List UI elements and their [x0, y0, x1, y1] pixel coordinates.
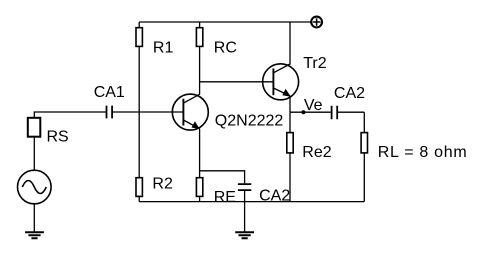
svg-text:CA1: CA1: [94, 84, 125, 101]
svg-text:RS: RS: [47, 129, 69, 146]
svg-text:Re2: Re2: [302, 144, 331, 161]
svg-text:Ve: Ve: [304, 97, 323, 114]
svg-text:RC: RC: [214, 40, 237, 57]
svg-text:R2: R2: [152, 176, 173, 193]
svg-text:CA2: CA2: [259, 188, 290, 205]
svg-text:RE: RE: [214, 189, 236, 206]
svg-text:CA2: CA2: [334, 85, 365, 102]
svg-text:R1: R1: [153, 40, 174, 57]
svg-text:RL = 8 ohm: RL = 8 ohm: [378, 144, 468, 161]
svg-text:Tr2: Tr2: [303, 55, 327, 72]
svg-text:Q2N2222: Q2N2222: [215, 113, 284, 130]
